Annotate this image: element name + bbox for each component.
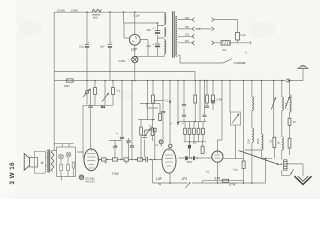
svg-text:0,65A: 0,65A	[119, 59, 126, 63]
svg-text:0,1: 0,1	[269, 139, 272, 143]
svg-text:8µF: 8µF	[147, 28, 152, 32]
svg-text:0,1A: 0,1A	[240, 33, 246, 37]
svg-text:0,1µ: 0,1µ	[79, 46, 84, 49]
svg-text:0,1: 0,1	[117, 89, 121, 93]
svg-text:110: 110	[185, 39, 190, 43]
svg-text:1kΩ: 1kΩ	[93, 15, 98, 19]
svg-text:+: +	[152, 26, 154, 30]
svg-text:4µF: 4µF	[100, 46, 105, 49]
svg-text:0,1µF: 0,1µF	[134, 15, 141, 18]
svg-text:KCl-1A3: KCl-1A3	[86, 181, 96, 184]
svg-text:0,3M: 0,3M	[217, 97, 223, 101]
svg-text:220: 220	[185, 16, 190, 20]
svg-text:8µF: 8µF	[147, 44, 152, 48]
svg-text:7Ω: 7Ω	[149, 126, 152, 129]
svg-text:1P03: 1P03	[187, 162, 193, 164]
svg-text:0,1µ: 0,1µ	[233, 169, 238, 172]
svg-text:77W: 77W	[112, 172, 120, 176]
svg-text:3 W 16: 3 W 16	[9, 162, 16, 185]
svg-text:1MΩ: 1MΩ	[64, 84, 70, 88]
svg-text:0,1MΩ: 0,1MΩ	[57, 8, 65, 12]
svg-text:1W: 1W	[193, 142, 197, 145]
svg-text:50~: 50~	[223, 48, 228, 52]
svg-text:E74: E74	[215, 176, 221, 180]
svg-text:JP3: JP3	[182, 177, 188, 181]
svg-text:L4F: L4F	[156, 177, 163, 181]
svg-text:+: +	[152, 42, 154, 46]
svg-text:125: 125	[185, 33, 190, 37]
svg-text:E7W: E7W	[229, 183, 235, 187]
svg-text:150: 150	[185, 25, 190, 29]
svg-text:1ZP: 1ZP	[131, 47, 138, 51]
svg-text:0,05: 0,05	[247, 139, 250, 144]
svg-text:5000: 5000	[257, 138, 260, 144]
svg-text:0,1: 0,1	[206, 171, 210, 174]
svg-text:1,5MΩ: 1,5MΩ	[71, 8, 79, 12]
